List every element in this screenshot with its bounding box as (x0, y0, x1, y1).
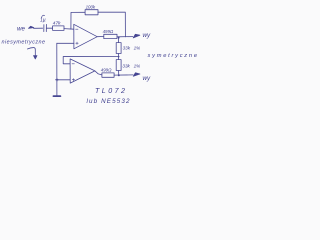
svg-text:wy: wy (143, 32, 152, 39)
plus sign U1B (72, 79, 74, 81)
svg-text:1µ: 1µ (40, 18, 46, 24)
wire U1A non-inverting input (57, 42, 74, 44)
svg-text:we: we (17, 26, 25, 33)
svg-text:1%: 1% (134, 45, 141, 50)
svg-text:499Ω: 499Ω (101, 67, 112, 72)
wire output U1B (95, 71, 102, 75)
svg-text:TL072: TL072 (95, 87, 125, 95)
wire capacitor to resistor (47, 27, 53, 29)
wire R4 to R5, node B (118, 54, 120, 60)
resistor R6 (499R bottom) (102, 73, 114, 77)
ground bus vertical (56, 43, 58, 95)
input arrow (29, 26, 34, 28)
resistor R3 (499R top) (104, 34, 117, 38)
wire input to capacitor (34, 27, 43, 29)
output arrow top (133, 34, 140, 38)
wire node A to divider (118, 38, 120, 43)
svg-text:47k: 47k (53, 21, 61, 27)
resistor R5 (33k lower, vertical) (116, 60, 121, 71)
op-amp U1B (70, 59, 95, 83)
svg-text:33k: 33k (123, 45, 131, 50)
svg-text:symetryczne: symetryczne (148, 53, 198, 59)
plus sign U1A (76, 42, 78, 44)
wire feedback top to output drop (98, 12, 125, 37)
resistor R4 (33k upper, vertical) (116, 43, 121, 54)
wire bus branch to U1B non-inverting input (57, 79, 70, 81)
minus sign U1B (72, 63, 74, 65)
svg-text:1%: 1% (134, 64, 141, 69)
resistor R2 (feedback 100k) (85, 10, 98, 15)
capacitor C1 (44, 24, 47, 31)
wire node B to U1B inverting input (63, 57, 118, 64)
svg-text:niesymetryczne: niesymetryczne (2, 39, 46, 45)
svg-text:33k: 33k (122, 63, 130, 68)
ground arrow near input bus (27, 48, 35, 56)
svg-text:lub NE5532: lub NE5532 (87, 98, 130, 105)
output arrow bottom (133, 73, 140, 76)
wire resistor to op-amp inverting input, node A junction (64, 28, 74, 31)
junction node C (118, 74, 120, 76)
ground bar at bus bottom (53, 95, 60, 97)
wire R6 to output arrow bottom (114, 74, 133, 76)
minus sign U1A (76, 28, 78, 30)
resistor R1 (53, 26, 64, 31)
wire feedback riser (71, 12, 85, 29)
wire R3 to output arrow (117, 36, 133, 38)
svg-text:wy: wy (143, 75, 152, 82)
wire output U1A (97, 36, 104, 38)
junction bus branch (56, 79, 58, 81)
junction node B (118, 56, 120, 58)
op-amp U1A (74, 24, 97, 49)
wire R5 to node C (118, 71, 120, 76)
junction node A out (118, 37, 120, 39)
svg-text:499Ω: 499Ω (103, 29, 114, 34)
svg-text:100k: 100k (86, 4, 96, 9)
